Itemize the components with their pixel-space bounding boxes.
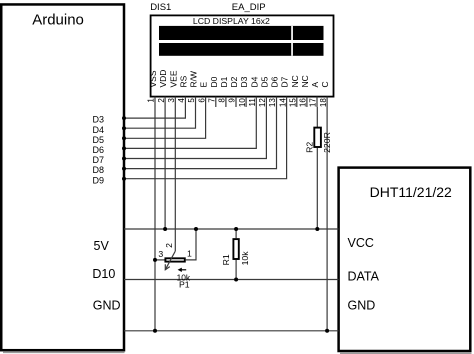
LCD glass divider (291, 26, 293, 56)
svg-text:17: 17 (309, 98, 318, 107)
svg-text:DIS1: DIS1 (150, 2, 171, 13)
svg-text:D8: D8 (93, 165, 105, 175)
svg-text:A: A (310, 82, 320, 88)
resistor R2 body (314, 128, 321, 147)
svg-text:1: 1 (187, 248, 192, 258)
svg-text:D9: D9 (93, 175, 105, 185)
wire D9 to LCD pin14 D7 (124, 107, 287, 179)
svg-text:RS: RS (178, 75, 188, 87)
svg-text:D7: D7 (280, 76, 290, 87)
svg-text:VDD: VDD (158, 70, 168, 88)
wire pot pin1 to 5V rail (186, 229, 196, 260)
junction DATA / R1 (234, 278, 238, 282)
svg-text:3: 3 (158, 249, 163, 259)
svg-text:D0: D0 (209, 76, 219, 87)
svg-text:R2: R2 (305, 142, 315, 153)
junction 5V rail / VDD (163, 227, 167, 231)
svg-text:6: 6 (197, 98, 206, 103)
svg-text:R/W: R/W (189, 71, 199, 88)
svg-text:D5: D5 (259, 76, 269, 87)
svg-text:GND: GND (348, 299, 376, 313)
wire GND rail (124, 330, 339, 332)
svg-text:D3: D3 (93, 115, 105, 125)
DHT11/21/22 sensor box (339, 168, 471, 351)
svg-text:13: 13 (268, 98, 277, 107)
junction pot pin3 / VSS column (153, 258, 157, 262)
svg-text:D5: D5 (93, 135, 105, 145)
LCD display DIS1 box (151, 15, 334, 96)
svg-text:5: 5 (187, 98, 196, 103)
svg-text:D4: D4 (249, 76, 259, 87)
wire LCD pin18 C down to GND (326, 107, 328, 331)
svg-text:R1: R1 (221, 254, 231, 265)
junction dots on Arduino pins D3-D9 (122, 116, 126, 181)
wire D7 to LCD pin12 D5 (124, 107, 266, 159)
LCD glass row 1 (159, 26, 324, 40)
svg-text:D10: D10 (92, 267, 115, 281)
svg-text:NC: NC (290, 75, 300, 87)
svg-text:2: 2 (157, 98, 166, 103)
junction 5V rail / R2 (315, 227, 319, 231)
Arduino U_MAIN box (1, 4, 124, 350)
wire D4 to LCD pin5 R/W (124, 107, 196, 128)
wire 5V rail (124, 228, 339, 230)
wire R2 to 5V rail (316, 148, 318, 229)
svg-text:D4: D4 (93, 125, 105, 135)
svg-text:8: 8 (218, 98, 227, 103)
svg-text:10: 10 (238, 98, 247, 107)
svg-text:DHT11/21/22: DHT11/21/22 (370, 184, 452, 200)
wire D6 to LCD pin11 D4 (124, 107, 256, 148)
wire LCD pin1 VSS down to GND (154, 107, 156, 331)
svg-text:D3: D3 (239, 76, 249, 87)
junction GND / LCD pin18 (325, 329, 329, 333)
LCD pin stubs 1-18 (155, 97, 327, 107)
wire LCD pin3 VEE down to pot wiper (174, 107, 176, 251)
svg-text:220R: 220R (322, 132, 332, 153)
wire LCD pin2 VDD down to 5V rail (164, 107, 166, 229)
shadow under Arduino box (3, 351, 125, 353)
wire R1 top to 5V rail (235, 229, 237, 238)
svg-text:D6: D6 (93, 145, 105, 155)
svg-text:3: 3 (167, 98, 176, 103)
svg-text:Arduino: Arduino (32, 11, 84, 28)
svg-text:10k: 10k (240, 251, 250, 266)
wire D10 to DATA (124, 279, 339, 281)
svg-text:GND: GND (93, 299, 121, 313)
LCD pin numbers rotated (147, 98, 328, 107)
junction 5V rail / R1 (234, 227, 238, 231)
shadow under DHT box (340, 352, 472, 354)
LCD glass row 2 (159, 43, 324, 56)
svg-text:LCD DISPLAY 16x2: LCD DISPLAY 16x2 (193, 16, 270, 26)
svg-text:11: 11 (248, 98, 257, 107)
junction 5V rail / pot pin1 (194, 227, 198, 231)
svg-text:4: 4 (177, 98, 186, 103)
wire D5 to LCD pin6 E (124, 107, 206, 138)
svg-text:14: 14 (278, 98, 287, 107)
wire D8 to LCD pin13 D6 (124, 107, 277, 169)
svg-text:2: 2 (164, 243, 174, 248)
svg-text:D6: D6 (270, 76, 280, 87)
junction GND / VSS column (153, 329, 157, 333)
svg-text:D7: D7 (93, 155, 105, 165)
wire pot pin3 to VSS column (155, 259, 165, 261)
P1 wiper arrow (165, 251, 175, 270)
svg-text:P1: P1 (179, 280, 190, 290)
svg-text:E: E (199, 82, 209, 88)
svg-text:D1: D1 (219, 76, 229, 87)
resistor R1 body (233, 239, 238, 259)
svg-text:VSS: VSS (148, 70, 158, 87)
svg-text:D2: D2 (229, 76, 239, 87)
wires (thin nets) (124, 107, 339, 331)
wire R1 bottom to DATA (235, 260, 237, 280)
potentiometer P1 body (165, 258, 184, 261)
svg-text:EA_DIP: EA_DIP (232, 2, 266, 13)
svg-text:DATA: DATA (348, 270, 380, 284)
svg-text:12: 12 (258, 98, 267, 107)
wire LCD pin17 A to R2 (316, 107, 318, 128)
svg-text:7: 7 (208, 98, 217, 103)
svg-text:16: 16 (299, 98, 308, 107)
P1 adjust arrow (178, 268, 187, 272)
wire D3 to LCD pin4 RS (124, 107, 185, 118)
svg-text:NC: NC (300, 75, 310, 87)
svg-text:5V: 5V (94, 239, 110, 253)
svg-text:18: 18 (319, 98, 328, 107)
svg-text:VEE: VEE (168, 70, 178, 87)
svg-text:C: C (320, 81, 330, 87)
svg-text:9: 9 (228, 98, 237, 103)
svg-text:VCC: VCC (348, 236, 374, 250)
svg-text:15: 15 (289, 98, 298, 107)
LCD pin names rotated (148, 70, 330, 88)
svg-text:1: 1 (147, 98, 156, 103)
